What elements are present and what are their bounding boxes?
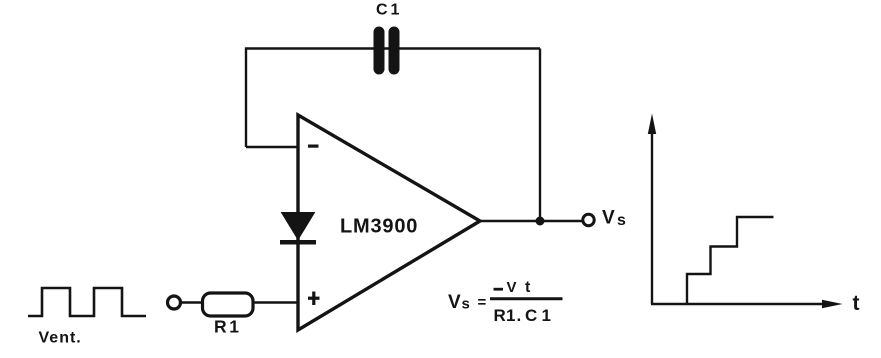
svg-text:t: t bbox=[525, 279, 531, 296]
waveform: staircase output bbox=[687, 217, 774, 303]
label Vs bbox=[602, 208, 626, 230]
wire: feedback right vertical from top wire down to output node bbox=[539, 49, 541, 222]
node: output junction dot bbox=[536, 217, 545, 226]
svg-text:t: t bbox=[853, 292, 860, 315]
graph: x axis bbox=[651, 300, 843, 308]
capacitor C1 bbox=[374, 27, 400, 75]
terminal Vs (open circle) bbox=[583, 214, 594, 225]
graph: y axis bbox=[648, 114, 656, 305]
svg-text:V: V bbox=[448, 292, 461, 313]
svg-text:LM3900: LM3900 bbox=[340, 216, 418, 238]
svg-text:R1: R1 bbox=[214, 317, 242, 337]
svg-text:s: s bbox=[617, 212, 626, 229]
plus input symbol bbox=[308, 292, 320, 306]
svg-text:V: V bbox=[507, 279, 517, 296]
waveform: input square wave bbox=[28, 288, 146, 316]
wire: feedback loop left vertical + top horizontal bbox=[246, 49, 540, 148]
wire: resistor to non-inverting input bbox=[253, 301, 298, 304]
terminal: input (open circle) bbox=[168, 296, 181, 309]
wire: input terminal to resistor bbox=[182, 301, 203, 304]
diode D1 on op-amp left edge bbox=[280, 213, 316, 245]
svg-text:=: = bbox=[478, 294, 487, 311]
minus input symbol bbox=[308, 145, 319, 148]
formula Vs = -Vt / R1.C1 bbox=[448, 279, 563, 325]
svg-text:V: V bbox=[602, 208, 615, 229]
wire: into inverting input bbox=[246, 146, 298, 148]
svg-text:Vent.: Vent. bbox=[39, 330, 82, 347]
svg-text:C1: C1 bbox=[376, 2, 402, 19]
wire: op-amp output to Vs terminal bbox=[480, 220, 582, 223]
resistor R1 bbox=[203, 293, 254, 316]
op-amp U1 bbox=[298, 115, 480, 330]
svg-text:s: s bbox=[462, 296, 470, 313]
